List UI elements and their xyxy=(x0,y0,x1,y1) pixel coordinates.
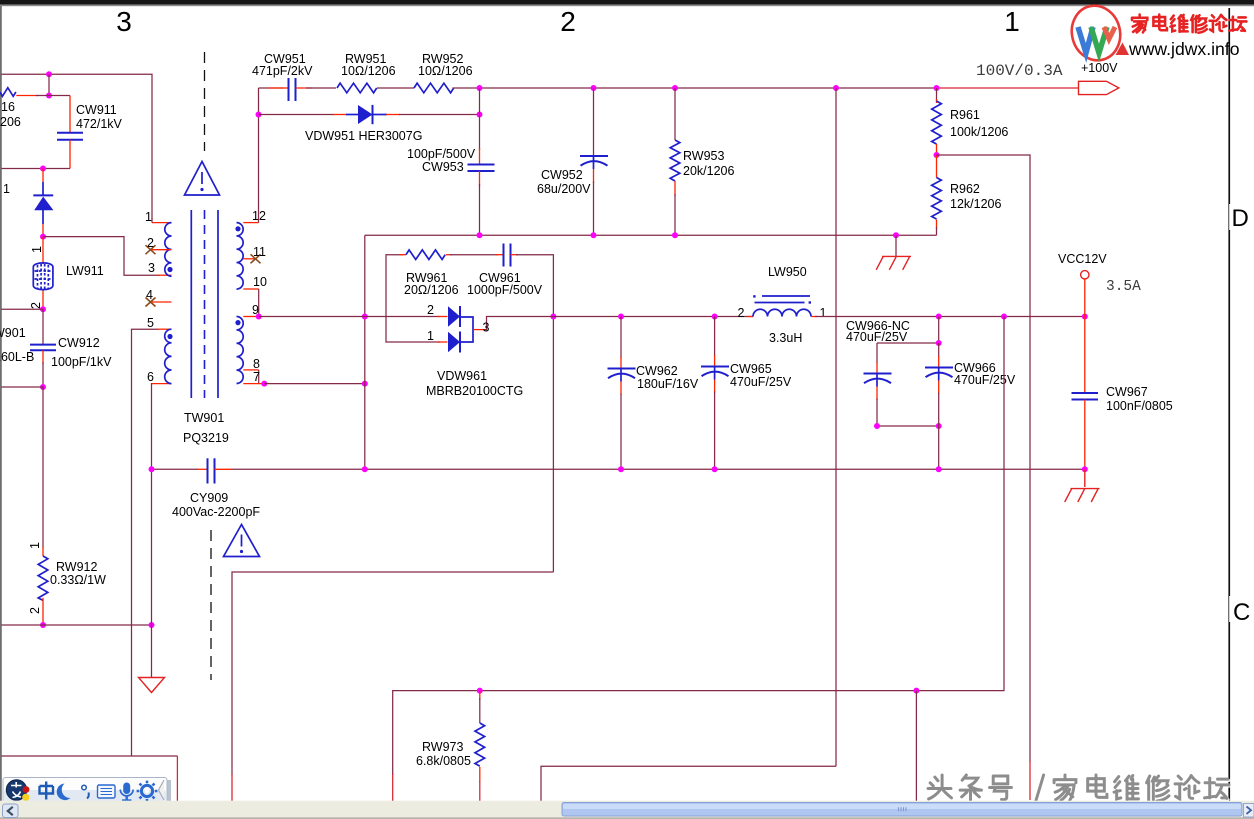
svg-text:CW911: CW911 xyxy=(76,103,117,117)
node CW966NC bottom right xyxy=(936,423,942,429)
node y235 x896 xyxy=(893,232,899,238)
svg-text:LW911: LW911 xyxy=(66,264,104,278)
svg-text:12k/1206: 12k/1206 xyxy=(950,197,1001,211)
svg-text:R961: R961 xyxy=(950,108,980,122)
svg-text:4: 4 xyxy=(146,288,153,302)
svg-text:RW912: RW912 xyxy=(56,560,98,574)
svg-text:6: 6 xyxy=(147,370,154,384)
resistor RW951 xyxy=(337,52,396,93)
svg-text:400Vac-2200pF: 400Vac-2200pF xyxy=(172,505,260,519)
primary winding pins 5-6 xyxy=(165,329,173,383)
wire x836 long vertical xyxy=(835,88,837,766)
node diode row left xyxy=(256,112,262,118)
svg-text:160L-B: 160L-B xyxy=(0,350,34,364)
node y88 x675 xyxy=(672,85,678,91)
svg-text:1: 1 xyxy=(820,306,827,320)
wire CW911 bottom to left edge xyxy=(2,168,71,170)
node bus x938 xyxy=(936,466,942,472)
wire bus y469 xyxy=(152,468,199,470)
svg-text:VCC12V: VCC12V xyxy=(1058,252,1107,266)
pin 12 stub xyxy=(243,222,258,224)
svg-text:www.jdwx.info: www.jdwx.info xyxy=(1128,39,1240,59)
capacitor CW952 xyxy=(537,88,608,235)
svg-text:3: 3 xyxy=(148,261,155,275)
svg-text:1: 1 xyxy=(3,182,10,196)
svg-text:VDW961: VDW961 xyxy=(437,369,487,383)
svg-text:2: 2 xyxy=(560,6,576,37)
svg-text:10Ω/1206: 10Ω/1206 xyxy=(418,64,473,78)
wire rail y316 mid xyxy=(553,316,753,318)
diode VD911 xyxy=(3,169,53,237)
output arrow +100V xyxy=(976,61,1119,95)
node rail x1085 xyxy=(1082,314,1088,320)
capacitor CW962 xyxy=(608,317,699,470)
watermark (stylized strokes) xyxy=(928,775,1230,802)
secondary winding pins 9-7 xyxy=(235,317,243,384)
dashed line below transformer xyxy=(210,530,212,680)
svg-text:C: C xyxy=(1233,599,1250,626)
svg-text:1000pF/500V: 1000pF/500V xyxy=(467,283,543,297)
svg-text:1: 1 xyxy=(427,329,434,343)
capacitor CW967 xyxy=(1072,317,1173,470)
svg-text:470uF/25V: 470uF/25V xyxy=(954,373,1016,387)
svg-text:8: 8 xyxy=(253,357,260,371)
svg-text:100nF/0805: 100nF/0805 xyxy=(1106,399,1173,413)
VCC12V port xyxy=(1058,252,1141,317)
node bus x364 xyxy=(362,466,368,472)
svg-text:472/1kV: 472/1kV xyxy=(76,117,123,131)
resistor RW916 (cropped at left edge) xyxy=(0,88,16,97)
svg-text:PQ3219: PQ3219 xyxy=(183,431,229,445)
svg-text:CW912: CW912 xyxy=(58,336,100,350)
primary winding pins 1-3 xyxy=(165,223,173,277)
grid row label D xyxy=(1229,204,1249,232)
node D911 anode xyxy=(40,166,46,172)
resistor RW973 xyxy=(416,691,485,807)
svg-text:100V/0.3A: 100V/0.3A xyxy=(976,62,1063,80)
wire rail y316 left part xyxy=(259,316,440,318)
wire feedback x1030 xyxy=(937,155,1031,762)
svg-text:+100V: +100V xyxy=(1081,61,1118,75)
capacitor CW951 xyxy=(252,52,313,101)
secondary winding pins 12-10 xyxy=(235,223,243,289)
svg-text:3: 3 xyxy=(483,321,490,335)
svg-text:CW952: CW952 xyxy=(541,168,583,182)
node R961/R962 xyxy=(934,152,940,158)
svg-text:206: 206 xyxy=(0,115,21,129)
svg-text:CY909: CY909 xyxy=(190,491,228,505)
node CW966NC bottom left xyxy=(874,423,880,429)
node pin7 xyxy=(261,381,267,387)
wire bus y690 xyxy=(393,317,1004,776)
snubber box top wire xyxy=(386,255,403,317)
svg-text:20Ω/1206: 20Ω/1206 xyxy=(404,283,459,297)
node rail x938 xyxy=(936,314,942,320)
node below diode xyxy=(40,234,46,240)
node y690 x916 xyxy=(913,688,919,694)
node y625 x151 xyxy=(149,622,155,628)
node y235 x675 xyxy=(672,232,678,238)
svg-text:3.5A: 3.5A xyxy=(1106,279,1141,295)
node CW966NC top xyxy=(936,340,942,346)
pin 4 no-connect xyxy=(146,288,172,307)
svg-text:RW953: RW953 xyxy=(683,149,725,163)
dashed line above transformer xyxy=(204,52,206,151)
transformer core xyxy=(191,210,218,398)
node x553 y316 xyxy=(550,314,556,320)
svg-text:2: 2 xyxy=(427,303,434,317)
ground chassis R96x xyxy=(876,235,911,269)
resistor RW961 xyxy=(400,250,459,297)
svg-text:3.3uH: 3.3uH xyxy=(769,331,802,345)
wire short vertical x49 xyxy=(48,74,50,95)
node CW912 bottom xyxy=(40,384,46,390)
node bus x1085 xyxy=(1082,466,1088,472)
svg-text:RW973: RW973 xyxy=(422,740,464,754)
top black title bar xyxy=(0,0,1254,5)
node LW911 bottom xyxy=(40,306,46,312)
wire left edge y309 xyxy=(2,308,44,310)
svg-text:471pF/2kV: 471pF/2kV xyxy=(252,64,313,78)
node y88 x836 xyxy=(833,85,839,91)
node x365 y383 xyxy=(362,381,368,387)
svg-text:180uF/16V: 180uF/16V xyxy=(637,377,699,391)
capacitor CY909 xyxy=(172,458,260,519)
ground arrow (open triangle) xyxy=(139,678,165,693)
svg-text:16: 16 xyxy=(1,100,15,114)
svg-text:2: 2 xyxy=(738,306,745,320)
wire RW961 to CW961 xyxy=(450,254,498,256)
logo chinese title (stylized strokes) xyxy=(1132,15,1246,33)
svg-text:7: 7 xyxy=(253,370,260,384)
svg-text:1: 1 xyxy=(1004,6,1020,37)
svg-text:100k/1206: 100k/1206 xyxy=(950,125,1008,139)
svg-text:1: 1 xyxy=(30,246,44,253)
diode VDW951 xyxy=(259,105,480,143)
wire bottom-left y756 xyxy=(2,755,178,757)
wire y766 to x541 xyxy=(541,766,836,804)
svg-text:470uF/25V: 470uF/25V xyxy=(846,330,908,344)
wire y625 to ground branch xyxy=(2,624,152,626)
svg-text:20k/1206: 20k/1206 xyxy=(683,164,734,178)
svg-text:2: 2 xyxy=(147,236,154,250)
svg-text:100pF/1kV: 100pF/1kV xyxy=(51,355,112,369)
warning triangle U1 xyxy=(185,162,220,196)
svg-text:1: 1 xyxy=(145,210,152,224)
capacitor CW912 xyxy=(0,309,112,387)
diode VDW961 top half xyxy=(427,303,460,327)
warning triangle U2 xyxy=(224,525,260,557)
svg-text:W901: W901 xyxy=(0,326,26,340)
wire left edge y387 xyxy=(2,386,44,388)
wire cap to RW951 xyxy=(306,87,336,89)
capacitor CW966-NC branch xyxy=(846,317,939,427)
snubber box right wire xyxy=(516,255,553,572)
wire down to RW912 xyxy=(42,387,44,548)
diode VDW961 bottom half xyxy=(427,329,460,353)
svg-text:10: 10 xyxy=(253,275,267,289)
svg-text:CW965: CW965 xyxy=(730,362,772,376)
svg-text:0.33Ω/1W: 0.33Ω/1W xyxy=(50,573,106,587)
svg-text:470uF/25V: 470uF/25V xyxy=(730,375,792,389)
node rail x621 xyxy=(618,314,624,320)
svg-text:D: D xyxy=(1232,205,1249,232)
capacitor CW911 xyxy=(57,96,123,169)
wire RW951-RW952 xyxy=(377,87,414,89)
svg-text:CW962: CW962 xyxy=(636,364,678,378)
svg-text:CW953: CW953 xyxy=(422,160,464,174)
svg-text:CW967: CW967 xyxy=(1106,385,1148,399)
node bus x621 xyxy=(618,466,624,472)
wire bus y235 xyxy=(365,234,937,236)
node RW912 bottom xyxy=(40,622,46,628)
wire top bus y88 xyxy=(452,87,938,89)
wire pin5 vertical x131 xyxy=(132,329,159,756)
svg-text:3: 3 xyxy=(116,6,132,37)
node y88 x479 xyxy=(477,85,483,91)
svg-text:68u/200V: 68u/200V xyxy=(537,182,591,196)
svg-text:1: 1 xyxy=(28,542,42,549)
node y88 x936 xyxy=(934,85,940,91)
capacitor CW961 xyxy=(467,244,543,298)
inductor LW911 xyxy=(29,237,104,309)
svg-text:5: 5 xyxy=(147,316,154,330)
svg-text:100pF/500V: 100pF/500V xyxy=(407,147,476,161)
capacitor CW965 xyxy=(701,317,792,470)
capacitor CW953 xyxy=(407,88,495,235)
inductor LW950 xyxy=(738,265,827,345)
wire pin6 vertical x151 to ground arrow xyxy=(151,384,154,677)
wire pin7 to x365 xyxy=(264,383,365,385)
pin 11 no-connect xyxy=(243,245,266,263)
pin 7 stub xyxy=(243,370,264,384)
resistor RW952 xyxy=(414,52,473,93)
node top-left A xyxy=(46,71,52,77)
node pin9 xyxy=(256,314,262,320)
wire pin1 red stub xyxy=(152,222,172,224)
svg-text:11: 11 xyxy=(253,245,266,259)
node y235 x479 xyxy=(477,232,483,238)
grid row label C xyxy=(1229,596,1250,626)
node y690 x480 xyxy=(477,688,483,694)
wire top-left horizontal to pin1 vertical xyxy=(2,74,153,219)
pin 8 stub xyxy=(243,357,260,384)
node rail x1004 xyxy=(1001,314,1007,320)
svg-text:10Ω/1206: 10Ω/1206 xyxy=(341,64,396,78)
wire rail y316 right xyxy=(815,316,1085,318)
left page border xyxy=(0,6,2,802)
pin 10 stub xyxy=(243,275,267,317)
node y88 x593 xyxy=(591,85,597,91)
wire to transformer pin 3 xyxy=(43,237,160,276)
VDW961 cathode bracket pin3 xyxy=(461,317,553,343)
pin 9 stub xyxy=(243,303,259,317)
resistor RW912 xyxy=(28,542,106,625)
node bus x714 xyxy=(712,466,718,472)
node y235 x593 xyxy=(591,232,597,238)
node bus x151 xyxy=(149,466,155,472)
wire snubber return loop xyxy=(232,572,553,775)
resistor R962 xyxy=(932,155,1002,235)
right page border xyxy=(1228,8,1230,806)
ground chassis VCC xyxy=(1065,469,1100,502)
snubber box bottom wire xyxy=(386,317,440,343)
node rail x714 xyxy=(712,314,718,320)
pin 2 no-connect xyxy=(146,236,172,254)
svg-text:TW901: TW901 xyxy=(184,411,224,425)
node diode row right xyxy=(477,112,483,118)
svg-text:VDW951 HER3007G: VDW951 HER3007G xyxy=(305,129,422,143)
svg-text:R962: R962 xyxy=(950,182,980,196)
node x365 y316 xyxy=(362,314,368,320)
resistor RW953 xyxy=(670,88,734,235)
wire CW951 left leg xyxy=(259,87,285,89)
svg-text:LW950: LW950 xyxy=(768,265,807,279)
svg-text:6.8k/0805: 6.8k/0805 xyxy=(416,754,471,768)
svg-text:2: 2 xyxy=(28,607,42,614)
capacitor CW966 xyxy=(925,343,1016,469)
wire x365 vertical xyxy=(364,235,366,469)
resistor R961 xyxy=(932,88,1009,155)
node top-left B xyxy=(46,93,52,99)
svg-text:MBRB20100CTG: MBRB20100CTG xyxy=(426,384,523,398)
wire x916 down xyxy=(915,691,917,802)
